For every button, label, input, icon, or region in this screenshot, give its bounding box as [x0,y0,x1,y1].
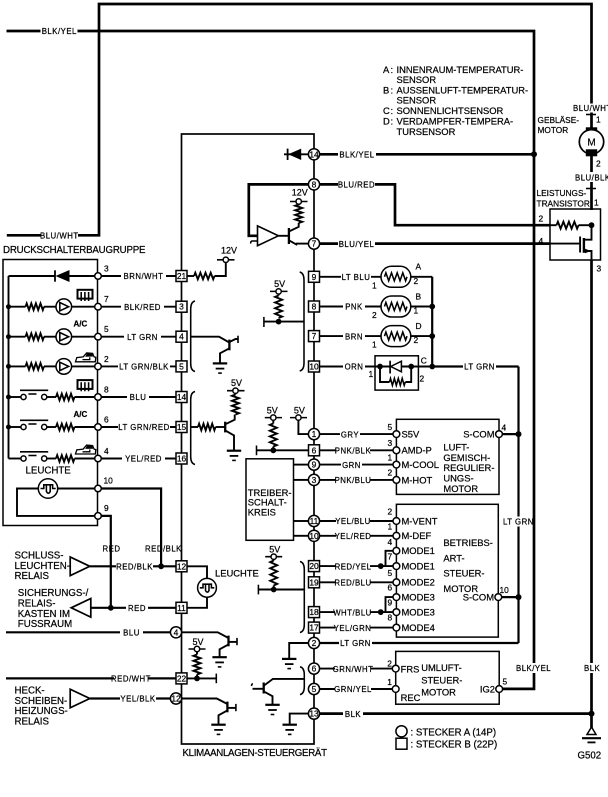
pin MODE3 (9) [388,598,435,618]
wire BLU/WHT top feed: left edge to blower motor [7,4,592,235]
pin 4 (row7) [95,446,109,462]
relay SCHLUSS triangle [70,557,90,576]
svg-text:A: A [416,262,422,272]
connector B12 [176,561,187,572]
pin MODE3 (6) [388,583,435,603]
pin M-HOT [388,468,433,486]
svg-text:BLU/YEL: BLU/YEL [339,240,375,249]
node sensor pullup junction [276,319,282,325]
svg-text:A/C: A/C [74,320,88,329]
supply 5V symbol (sensor) [270,279,288,295]
sensor C (sunlight sensor) box [375,356,418,390]
bracket group B3/B4/B5 [191,301,195,372]
svg-text:MODE3: MODE3 [402,592,435,603]
svg-text:RELAIS: RELAIS [15,717,50,728]
wire row5 pressure switch and resistor R5 [9,390,95,400]
node S-COM 10 junction [516,594,522,600]
svg-text:BLK/RED: BLK/RED [124,303,161,312]
node bus row2 [6,304,11,309]
node bus row5 [6,395,11,400]
svg-text:D: D [383,115,390,126]
wire lamp to pin 9 [17,489,95,516]
resistor (AMD-P pullup) [270,424,277,447]
resistor (sensor pullup) [275,296,282,319]
supply 5V symbol (S5V line) [290,405,309,434]
relay SCHLUSS-LEUCHTEN-RELAIS label [15,551,70,583]
wire RED/YEL connector B20 to MODE1 pins [320,551,394,572]
svg-text:MODE1: MODE1 [402,561,435,572]
pin AMD-P [388,438,432,456]
svg-text:STEUER-: STEUER- [443,568,484,579]
pin MODE4 [388,612,435,633]
driver circuit box TREIBERSCHALTKREIS [246,459,294,541]
supply 12V symbol (amp) [290,187,308,205]
svg-text:ORN: ORN [345,363,364,372]
svg-text:LT GRN/BLK: LT GRN/BLK [119,363,169,372]
wire PNK connector B8 to sensor B [320,302,382,312]
svg-text:BLU: BLU [123,629,140,638]
wire BRN/WHT pin3 to connector 21 [101,271,176,281]
ground (A2 LT GRN) [282,659,296,669]
svg-text:6: 6 [104,415,109,425]
sensor C pin labels [369,356,427,384]
bracket group B14/B15/B16 [191,392,195,465]
svg-text:STEUER-: STEUER- [421,674,462,685]
svg-text:MODE1: MODE1 [402,545,435,556]
pin 1 label (power transistor) [594,198,599,208]
node drain junction [589,222,595,228]
node RED/BLK junction [158,563,164,569]
svg-text:18: 18 [309,607,319,617]
wire BLK/YEL connector A14 to bus [320,149,535,159]
connector B22 [176,673,187,684]
svg-text:5V: 5V [267,405,278,415]
svg-text:9: 9 [312,272,317,282]
connector B7 [309,331,320,342]
svg-text:8: 8 [388,612,393,622]
svg-text:DRUCKSCHALTERBAUGRUPPE: DRUCKSCHALTERBAUGRUPPE [3,245,146,256]
resistor (12V pullup amp) [295,205,302,224]
wire PNK/BLK connector B6 to AMD-P [320,445,394,455]
node mode pullup junction [271,587,277,593]
mode motor box BETRIEBSART-STEUERMOTOR [396,504,498,637]
svg-text:RED/BLK: RED/BLK [145,545,182,554]
node bus D [429,333,435,339]
svg-text:5: 5 [179,361,184,371]
connector A8 [308,179,319,190]
wire YEL/BLU connector A11 to M-VENT [320,516,394,526]
wire LT GRN sensor bus to right vertical [432,362,518,372]
ground (Q4) [227,451,241,461]
A/C label row6 [74,410,88,419]
svg-text:1: 1 [388,521,393,531]
svg-text:3: 3 [104,264,109,274]
climate control unit label [183,748,328,759]
svg-text:BLU/WHT: BLU/WHT [40,232,79,241]
transistor Q7 (FRS/REC driver) [252,679,305,705]
connector B18 [309,607,320,618]
svg-text:YEL/RED: YEL/RED [125,455,162,464]
relay box SICHERUNGS label [18,588,89,630]
pin 2 (row4) [95,354,109,370]
svg-text:RED/BLK: RED/BLK [116,563,153,572]
wire BLK/YEL main feed: left edge to vertical bus down to IG2 [7,31,535,689]
svg-text:8: 8 [312,179,317,189]
resistor (B22 pullup) [194,655,201,675]
wire sensor C to bus [412,366,433,368]
wire row4 with resistor R4 and indicator lamp [9,359,95,375]
svg-text:LT GRN: LT GRN [503,518,534,527]
climate control unit box KLIMAANLAGEN-STEUERGERAET [182,134,315,744]
relay SICHERUNGS triangle [71,599,91,618]
connector B9 [309,271,320,282]
air mix motor box LUFT-GEMISCH-REGULIERUNGS-MOTOR [396,419,499,494]
pin 9 (lamp) [95,503,109,519]
connector A10 [308,530,319,541]
svg-text:BLK/YEL: BLK/YEL [516,664,551,673]
svg-text:10: 10 [309,362,319,372]
svg-text:8: 8 [104,385,109,395]
svg-text:2: 2 [420,374,425,384]
svg-text:: STECKER A (14P): : STECKER A (14P) [411,727,497,738]
svg-text:A/C: A/C [74,410,88,419]
svg-text::: : [391,115,394,126]
svg-text:LEUCHTE: LEUCHTE [215,568,259,579]
ground (Q6) [211,725,225,735]
node AMD-P pullup junction [270,447,276,453]
svg-text:3: 3 [312,475,317,485]
supply 5V symbol (mode pullup) [265,545,282,561]
svg-text:GRN: GRN [342,461,361,470]
wire sensor bus vertical [431,277,433,367]
svg-text:1: 1 [596,115,601,125]
supply 5V symbol (Q4) [227,378,245,395]
pin 3 label (power transistor) [597,264,602,274]
connector A5 [308,683,319,694]
svg-text:KLIMAANLAGEN-STEUERGERÄT: KLIMAANLAGEN-STEUERGERÄT [183,748,328,759]
svg-text:5V: 5V [269,545,280,555]
connector B11 [176,602,187,613]
node C right [408,364,414,370]
svg-text:2: 2 [539,214,544,224]
svg-text:5V: 5V [294,405,305,415]
svg-text:BLU/BLK: BLU/BLK [575,173,608,182]
pin S5V [388,422,420,440]
connector A12 [170,693,181,704]
connector B15 [176,422,187,433]
svg-text:FRS: FRS [401,664,420,675]
wire GRN/YEL connector A5 to REC [320,684,393,694]
svg-text:BLU/WHT: BLU/WHT [573,104,608,113]
svg-text:BRN: BRN [345,332,363,341]
svg-text:4: 4 [388,537,393,547]
svg-text:VERDAMPFER-TEMPERA-: VERDAMPFER-TEMPERA- [397,115,514,126]
relay HECK-SCHEIBEN label [15,686,68,728]
wire PNK/BLU connector A3 to M-HOT [320,475,394,485]
wire lamp to pin 10 [58,488,95,490]
svg-text:8: 8 [312,302,317,312]
wire label BLK (right vertical) [583,663,601,673]
svg-text:SONNENLICHTSENSOR: SONNENLICHTSENSOR [397,105,504,116]
svg-text:GEBLÄSE-: GEBLÄSE- [538,115,580,125]
wire row6 pressure switch and resistor R6 [9,420,95,430]
svg-text:FUSSRAUM: FUSSRAUM [18,619,72,630]
wire RED/BLU connector B19 to MODE2 [320,577,394,587]
wire RED/BLK vertical from pin 10 [101,489,161,567]
ground (Q3) [213,363,227,373]
svg-text:LEUCHTE: LEUCHTE [26,466,72,477]
pin MODE1 (4) [388,537,435,556]
lamp LEUCHTE (pressure switch assembly) [38,479,57,498]
wire bracket through resistor to transistor Q4 [191,424,226,431]
wire row3 with resistor R3 and indicator lamp [9,329,95,345]
svg-text:RED: RED [103,545,121,554]
node bus row6 [6,425,11,430]
svg-text:MOTOR: MOTOR [443,483,478,494]
wire ORN connector B10 to sensor C [320,362,376,372]
pin 2 label (motor) [596,159,601,169]
svg-text:1: 1 [387,677,392,687]
svg-text:20: 20 [309,561,319,571]
svg-text:BLK: BLK [345,710,362,719]
svg-text:3: 3 [179,302,184,312]
pin REC [387,677,420,703]
wire LT GRN pin5 to connector 4 [101,332,176,342]
node WHT/BLU branch [378,609,384,615]
node B22 pullup junction [194,676,200,682]
svg-text:GRY: GRY [341,430,360,439]
svg-text:RED/WHT: RED/WHT [111,675,151,684]
A/C label row3 [74,320,88,329]
svg-text:S-COM: S-COM [463,592,494,603]
svg-text:PNK: PNK [345,303,363,312]
supply 5V symbol (AMD-P pullup) [265,405,282,423]
svg-text:9: 9 [312,460,317,470]
connector B21 [176,271,187,282]
wire label BLK/YEL (top left) [41,26,78,36]
svg-text:10: 10 [104,476,114,486]
internal bus wire (left) [8,276,10,459]
svg-text:AMD-P: AMD-P [402,445,432,456]
svg-text:6: 6 [312,664,317,674]
pin 7 (row2) [95,294,109,310]
svg-text:IG2: IG2 [480,683,495,694]
transistor Q4 (with 5V collector) [225,415,235,451]
svg-text:UMLUFT-: UMLUFT- [421,662,462,673]
connector B3 [176,301,187,312]
wire BLK/RED pin7 to connector 3 [101,302,176,312]
recirculation motor box UMLUFT-STEUER-MOTOR [396,651,500,704]
wire label BLK/YEL (right vertical) [515,663,551,673]
wire AMD-P internal stub [257,446,309,456]
svg-text:REC: REC [401,692,421,703]
svg-text:MODE2: MODE2 [402,577,435,588]
wire connector A13 to ground [290,714,309,725]
resistor (mode pullup) [270,561,277,586]
svg-text:MOTOR: MOTOR [421,687,456,698]
svg-text:12V: 12V [221,246,237,256]
svg-text:M: M [587,138,595,149]
wire YEL/BLK to connector A12 [90,694,171,704]
resistor (sensor C) [380,367,411,386]
connector B4 [176,331,187,342]
svg-text:M-HOT: M-HOT [402,474,433,485]
wire LT GRN connector A2 to vertical [320,638,519,648]
svg-text:LT BLU: LT BLU [342,273,371,282]
photodiode (sensor C) [375,361,411,374]
svg-text:B: B [416,292,422,302]
diode D1 row 1 [9,270,95,282]
pin M-DEF [388,521,432,541]
MOSFET Q1 inside power transistor box [550,225,592,260]
svg-text:A: A [383,64,390,75]
op-amp U1 triangle [251,226,279,246]
svg-text:12: 12 [171,694,181,704]
sensor B pin labels [372,292,422,321]
svg-text:15: 15 [177,422,187,432]
svg-text:YEL/RED: YEL/RED [335,532,372,541]
pin 10 (lamp) [95,476,113,492]
svg-text:GEMISCH-: GEMISCH- [443,452,490,463]
connector A9 [308,459,319,470]
svg-text:17: 17 [309,623,319,633]
svg-text:M-COOL: M-COOL [402,459,440,470]
svg-text:G502: G502 [578,751,602,762]
svg-text:5: 5 [388,422,393,432]
transistor Q5 [220,636,237,658]
svg-text:1: 1 [312,429,317,439]
node RED/YEL branch [378,563,384,569]
defrost icon row2 [78,290,93,301]
svg-text:RELAIS: RELAIS [15,571,50,582]
transistor Q6 [219,702,236,725]
svg-text::: : [391,84,394,95]
wire YEL/RED connector A10 to M-DEF [320,531,394,541]
sensor A pin labels [372,262,422,291]
svg-text:BLU/RED: BLU/RED [338,181,375,190]
ground (A13 BLK) [283,725,297,735]
transistor Q3 (LT GRN group) [220,336,238,364]
node BLK/YEL junction [531,151,537,157]
wire BLK connector A13 to ground line [320,709,592,719]
svg-text:ART-: ART- [443,553,464,564]
svg-text:5: 5 [503,677,508,687]
svg-text:LUFT-: LUFT- [443,441,469,452]
connector B5 [176,361,187,372]
pin M-VENT [388,506,438,526]
wire GRY connector A1 to S5V [320,429,394,439]
svg-text:C: C [421,356,427,366]
svg-text:MODE3: MODE3 [402,607,435,618]
connector B19 [309,577,320,588]
LEUCHTE label (pressure switch assembly) [26,466,72,477]
pin 3 (pressure switch row1) [95,264,109,280]
wire bracket to transistor Q3 [191,337,230,343]
svg-text:GRN/YEL: GRN/YEL [334,685,372,694]
legend connector B [396,738,497,750]
wire RED/BLK relay to connector 12 [90,561,176,571]
ground (Q7) [265,705,279,715]
svg-text:7: 7 [312,239,317,249]
svg-text:6: 6 [312,445,317,455]
wire S-COM to LT GRN vertical [502,433,518,435]
defrost icon row5 [78,380,93,391]
node bus row3 [6,334,11,339]
svg-text:12: 12 [177,561,187,571]
wire label BLU/WHT (top left) [40,231,79,241]
svg-text:9: 9 [104,503,109,513]
pin 2 label (power transistor) [539,214,544,224]
svg-text:M-DEF: M-DEF [402,530,432,541]
svg-text:LT GRN: LT GRN [340,639,371,648]
svg-text:YEL/BLU: YEL/BLU [335,517,371,526]
bracket group A6/A5 [300,667,304,695]
node C left [377,364,383,370]
wire connector A2 to ground [289,643,308,659]
wire BLU pin8 to connector 14 [101,392,176,402]
svg-text:16: 16 [177,454,187,464]
svg-text:BLK: BLK [584,664,601,673]
svg-text:21: 21 [177,271,187,281]
svg-text:5V: 5V [231,378,242,388]
wire connector A12 to transistor Q6 [182,699,228,705]
svg-text:BLU: BLU [130,393,147,402]
svg-text:TRANSISTOR: TRANSISTOR [537,198,590,208]
pin 6 (row6) [95,415,109,431]
wire RED to connector 11 [91,603,176,613]
wire connector A4 to transistor Q5 [182,632,229,638]
svg-text:LT GRN: LT GRN [127,333,158,342]
pin MODE2 [388,568,435,588]
wire label BLU/WHT (motor pin 1) [572,104,608,114]
svg-text:YEL/GRN: YEL/GRN [334,624,372,633]
svg-text:22: 22 [177,673,187,683]
connector A2 [308,637,319,648]
svg-text:S-COM: S-COM [463,429,494,440]
pin IG2 [480,677,508,695]
connector A4 [170,627,181,638]
svg-text:BETRIEBS-: BETRIEBS- [443,537,493,548]
pin 1 label (motor) [596,115,601,125]
node BLK junction [589,711,595,717]
wire driver to connector A9 [294,464,309,466]
wire 5V pullup to sensor bracket [264,317,304,327]
pin 8 (row5) [95,385,109,401]
connector tick transistor pin 1 [586,188,596,190]
svg-text:14: 14 [309,149,319,159]
svg-text:4: 4 [104,446,109,456]
svg-text:7: 7 [388,552,393,562]
wire BRN connector B7 to sensor D [320,331,382,341]
legend sensor descriptions A-D [383,64,528,137]
blower motor M1 [579,127,603,156]
connector A14 [308,149,319,160]
wire 12V pullup at connector B21 [187,262,226,279]
svg-text:RED/BLU: RED/BLU [334,579,371,588]
svg-text:7: 7 [312,331,317,341]
svg-text:1: 1 [372,340,377,350]
pin M-COOL [388,452,440,470]
resistor (5V to Q4) [232,395,239,415]
wire row7 pressure switch and resistor R7 [9,452,95,462]
sensor D pin labels [372,321,422,350]
connector A7 [308,238,319,249]
wire LT BLU connector B9 to sensor A [320,272,382,282]
power transistor box [550,209,601,260]
pin FRS [387,658,419,674]
pin MODE1 (7) [388,552,435,572]
svg-text:MOTOR: MOTOR [538,125,569,135]
